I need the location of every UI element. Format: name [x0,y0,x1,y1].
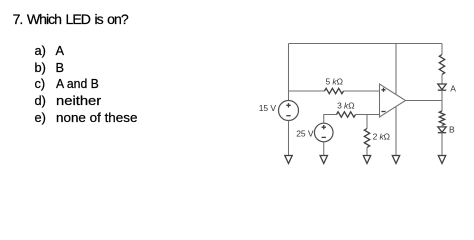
wire V- supply to ground [395,107,397,156]
wire V1 bottom to ground [288,121,290,156]
wire V2 bottom to ground [323,142,325,156]
svg-text:5 kΩ: 5 kΩ [326,76,343,86]
LED D1 A triangle [438,84,446,90]
question title [13,11,128,27]
wire 5k resistor to op-amp + input [344,90,380,92]
ground below V1 [285,156,292,164]
option e [0,112,1,125]
wire LED A to R5 through output node [441,90,443,111]
ground below LED B [438,156,445,164]
voltage source V2 25V circle [314,123,333,142]
V1 minus sign [286,115,290,117]
U1 plus input sign [381,88,385,92]
resistor R1 5k zigzag [325,88,344,93]
ground below R3 [363,156,370,164]
wire op-amp output [406,100,443,102]
svg-text:A: A [450,84,456,94]
svg-text:3 kΩ: 3 kΩ [337,101,354,111]
LED D1 A bar [438,89,446,91]
LED D2 B triangle [438,127,446,132]
U1 minus input sign [381,111,385,113]
wire 3k resistor to op-amp - input [356,114,380,116]
V1 plus sign [286,103,290,107]
svg-text:2 kΩ: 2 kΩ [373,132,390,142]
option a [0,45,1,58]
wire LED B to ground [441,125,443,155]
wire R3 to ground [366,148,368,156]
option c [0,78,1,91]
option d [0,95,1,108]
wire top rail [289,43,443,45]
wire R4 to LED A [441,74,443,84]
wire node A1 to 5k resistor [289,90,325,92]
resistor R4 zigzag vertical [439,55,444,75]
op-amp U1 triangle [380,84,406,117]
wire 25V node up and right to 3k resistor [324,115,337,124]
wire V+ supply from top rail [395,44,397,95]
wire left drop to 15V node [288,44,290,101]
resistor R3 2k zigzag vertical [364,129,369,148]
option b [0,62,1,75]
ground below V2 [320,156,327,164]
svg-text:B: B [449,124,455,134]
LED D2 B bar [438,132,446,134]
V2 plus sign [322,125,326,129]
wire right column top segment [441,44,443,55]
wire 2k tap down from - input node [366,115,368,129]
resistor R5 zigzag vertical [439,111,444,125]
svg-text:15 V: 15 V [259,103,277,113]
svg-text:25 V: 25 V [296,129,314,139]
V2 minus sign [322,136,326,138]
ground below op-amp V- [392,156,399,164]
resistor R2 3k zigzag [337,112,356,117]
voltage source V1 15V circle [279,101,299,121]
